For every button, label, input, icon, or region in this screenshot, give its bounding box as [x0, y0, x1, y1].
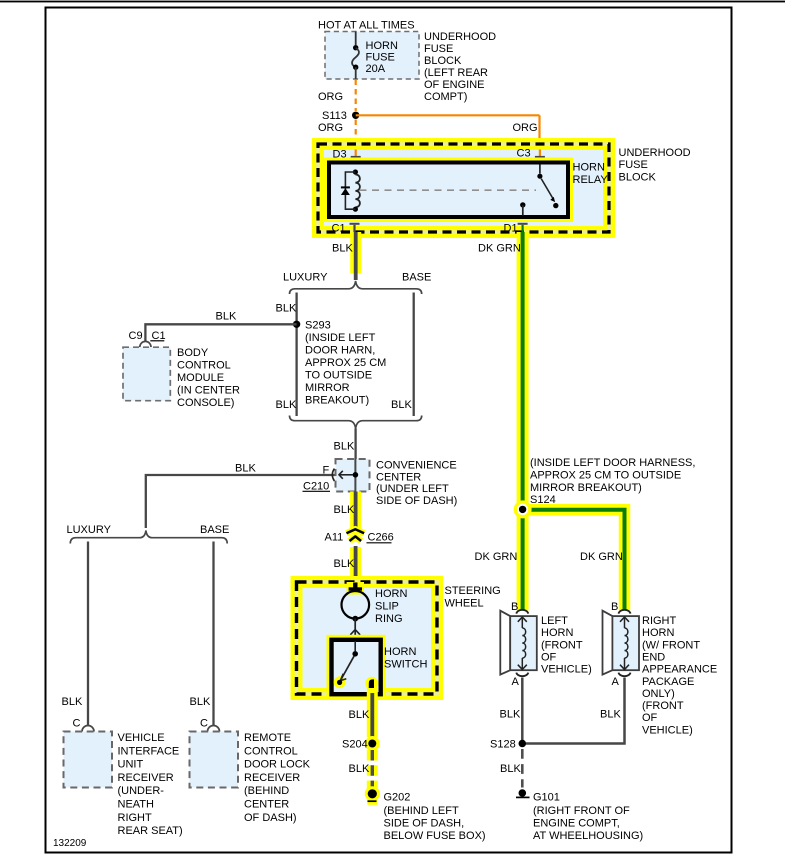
label VEHICLE INTERFACE UNIT RECEIVER (UNDERNEATH RIGHT REAR SEAT)	[118, 732, 183, 837]
svg-text:CONSOLE): CONSOLE)	[177, 397, 234, 409]
wire DK GRN S124 branch right and down (yellow highlighted)	[523, 510, 625, 611]
wire ORG down to relay C3	[538, 115, 540, 139]
svg-text:ORG: ORG	[318, 91, 343, 103]
svg-text:(INSIDE LEFT DOOR HARNESS,: (INSIDE LEFT DOOR HARNESS,	[530, 457, 695, 469]
label G202 (BEHIND LEFT SIDE OF DASH, BELOW FUSE BOX)	[384, 792, 486, 842]
svg-text:A11: A11	[325, 532, 344, 544]
svg-text:(BEHIND: (BEHIND	[244, 785, 289, 797]
label CONVENIENCE CENTER (UNDER LEFT SIDE OF DASH)	[376, 460, 457, 507]
svg-text:REAR SEAT): REAR SEAT)	[118, 825, 183, 837]
left horn body	[500, 611, 537, 675]
svg-text:WHEEL: WHEEL	[445, 598, 484, 610]
connector F / C210	[303, 459, 359, 493]
svg-text:APPROX 25 CM: APPROX 25 CM	[305, 357, 386, 369]
svg-text:BLK: BLK	[334, 504, 355, 516]
svg-text:ENGINE COMPT,: ENGINE COMPT,	[533, 817, 620, 829]
svg-text:BLOCK: BLOCK	[424, 55, 462, 67]
svg-text:BELOW FUSE BOX): BELOW FUSE BOX)	[384, 830, 486, 842]
svg-text:BLK: BLK	[216, 311, 237, 323]
label HORN SWITCH	[384, 646, 427, 671]
svg-text:OF ENGINE: OF ENGINE	[424, 79, 485, 91]
label HORN SLIP RING	[375, 588, 407, 625]
svg-text:DK GRN: DK GRN	[478, 243, 521, 255]
splice S204	[342, 736, 380, 751]
underhood fuse block outline (yellow highlight + dashed)	[318, 144, 609, 232]
splice S293	[293, 321, 300, 328]
label STEERING WHEEL	[445, 585, 501, 610]
svg-text:BLK: BLK	[276, 399, 297, 411]
svg-text:HORN: HORN	[366, 40, 398, 52]
svg-text:RING: RING	[375, 613, 403, 625]
svg-text:VEHICLE): VEHICLE)	[642, 724, 693, 736]
svg-text:RIGHT: RIGHT	[642, 615, 677, 627]
svg-text:RECEIVER: RECEIVER	[118, 772, 174, 784]
svg-text:UNDERHOOD: UNDERHOOD	[424, 31, 496, 43]
connector bump vehicle interface unit	[82, 726, 94, 732]
svg-text:HORN: HORN	[384, 646, 416, 658]
steering wheel box (yellow highlight + dashed)	[297, 582, 438, 694]
wire BLK luxury branch (left vertical)	[295, 293, 297, 417]
relay clamp diode	[341, 172, 356, 209]
svg-text:END: END	[642, 652, 665, 664]
svg-text:BLK: BLK	[276, 303, 297, 315]
right horn body	[603, 611, 640, 675]
body control module box (dashed)	[123, 347, 170, 401]
brace	[70, 531, 227, 544]
svg-text:C1: C1	[332, 223, 346, 235]
svg-text:CENTER: CENTER	[244, 799, 289, 811]
svg-text:CENTER: CENTER	[376, 471, 421, 483]
svg-text:HORN: HORN	[375, 588, 407, 600]
svg-text:SLIP: SLIP	[375, 601, 399, 613]
wire BLK left horn to S128	[521, 678, 524, 744]
svg-text:(W/ FRONT: (W/ FRONT	[642, 639, 700, 651]
svg-text:ORG: ORG	[513, 122, 538, 134]
horn slip ring	[342, 582, 370, 621]
svg-text:(FRONT: (FRONT	[541, 639, 583, 651]
brace top	[290, 281, 422, 294]
svg-text:MIRROR: MIRROR	[305, 382, 350, 394]
svg-text:DK GRN: DK GRN	[475, 551, 518, 563]
horn relay box (yellow highlight + solid black)	[329, 163, 568, 218]
top hairline rule	[0, 1, 785, 3]
svg-text:(UNDER LEFT: (UNDER LEFT	[376, 483, 449, 495]
connector C9 / C1 labels	[129, 330, 166, 342]
wire ORG fuse to S113 (dashed)	[355, 80, 357, 112]
relay switch	[520, 165, 558, 216]
svg-text:B: B	[611, 601, 618, 613]
connector bump bottom	[619, 673, 631, 677]
svg-text:S113: S113	[322, 110, 347, 122]
svg-text:CONTROL: CONTROL	[177, 360, 231, 372]
relay mechanical link (dashed)	[360, 189, 537, 191]
wire BLK S293 to BCM	[145, 324, 296, 341]
connector bump top	[516, 610, 528, 614]
wire ORG S113 to C3 (horizontal)	[356, 114, 540, 116]
terminal C3	[517, 148, 545, 160]
svg-text:C9: C9	[129, 330, 143, 342]
svg-text:BLK: BLK	[190, 696, 211, 708]
svg-text:FUSE: FUSE	[366, 52, 395, 64]
svg-text:BREAKOUT): BREAKOUT)	[305, 395, 369, 407]
left horn coil with arrows	[518, 617, 527, 670]
fuse HORN FUSE 20A	[352, 32, 398, 80]
svg-text:MODULE: MODULE	[177, 372, 224, 384]
svg-text:S204: S204	[342, 739, 368, 751]
label RIGHT HORN (W/ FRONT END APPEARANCE PACKAGE ONLY) (FRONT OF VEHICLE)	[642, 615, 717, 736]
svg-text:D1: D1	[504, 223, 518, 235]
svg-text:C266: C266	[368, 532, 394, 544]
svg-text:BASE: BASE	[402, 272, 431, 284]
svg-text:BLK: BLK	[500, 709, 521, 721]
svg-text:G202: G202	[384, 792, 411, 804]
svg-text:BLK: BLK	[500, 763, 521, 775]
label S293 (INSIDE LEFT DOOR HARN...)	[305, 320, 386, 407]
svg-text:HOT AT ALL TIMES: HOT AT ALL TIMES	[318, 20, 415, 32]
label HORN RELAY	[573, 162, 609, 186]
svg-text:OF: OF	[541, 652, 557, 664]
svg-text:LUXURY: LUXURY	[67, 524, 112, 536]
svg-text:G101: G101	[533, 792, 560, 804]
svg-text:BLK: BLK	[334, 441, 355, 453]
svg-text:HORN: HORN	[573, 162, 605, 174]
svg-text:FUSE: FUSE	[424, 43, 453, 55]
right horn coil with arrows	[620, 617, 629, 670]
svg-text:MIRROR BREAKOUT): MIRROR BREAKOUT)	[530, 482, 642, 494]
connector bump at BCM	[140, 341, 151, 347]
splice S128	[490, 739, 526, 751]
label G101 (RIGHT FRONT OF ENGINE COMPT, AT WHEELHOUSING)	[533, 792, 643, 842]
svg-text:LEFT: LEFT	[541, 615, 568, 627]
svg-text:DOOR LOCK: DOOR LOCK	[244, 759, 311, 771]
splice S124	[514, 500, 532, 518]
label (INSIDE LEFT DOOR HARNESS, APPROX 25 CM TO OUTSIDE MIRROR BREAKOUT) S124	[530, 457, 695, 506]
terminal D3	[333, 149, 361, 161]
horn switch box (yellow highlight + solid)	[332, 640, 381, 694]
wire BLK right horn down to S128 line	[526, 678, 625, 744]
wire BLK horn switch to S204 (yellow highlighted)	[367, 688, 378, 740]
svg-text:ORG: ORG	[318, 122, 343, 134]
svg-text:BLK: BLK	[391, 399, 412, 411]
svg-text:CONTROL: CONTROL	[244, 745, 298, 757]
wire DK GRN S124 down to left horn (yellow highlighted)	[517, 509, 529, 610]
svg-text:SIDE OF DASH): SIDE OF DASH)	[376, 495, 457, 507]
svg-text:BLK: BLK	[349, 709, 370, 721]
wire BLK S128 to G101 (dashed)	[521, 749, 524, 788]
svg-text:BLK: BLK	[600, 709, 621, 721]
svg-text:BODY: BODY	[177, 347, 209, 359]
svg-text:DOOR HARN,: DOOR HARN,	[305, 345, 375, 357]
wire DK GRN D1 to S124 (yellow highlighted)	[517, 232, 529, 509]
svg-text:DK GRN: DK GRN	[580, 551, 623, 563]
svg-text:UNDERHOOD: UNDERHOOD	[619, 147, 691, 159]
svg-text:C: C	[73, 718, 81, 730]
svg-text:INTERFACE: INTERFACE	[118, 745, 180, 757]
svg-text:SWITCH: SWITCH	[384, 659, 427, 671]
svg-text:(INSIDE LEFT: (INSIDE LEFT	[305, 332, 376, 344]
svg-text:BLK: BLK	[332, 243, 353, 255]
svg-text:REMOTE: REMOTE	[244, 732, 291, 744]
svg-text:TO OUTSIDE: TO OUTSIDE	[305, 370, 372, 382]
svg-text:A: A	[512, 676, 520, 688]
svg-text:PACKAGE: PACKAGE	[642, 676, 694, 688]
wire BLK base branch to remote receiver	[212, 542, 214, 726]
svg-text:STEERING: STEERING	[445, 585, 501, 597]
connector bump remote receiver	[208, 726, 220, 732]
svg-text:F: F	[323, 465, 330, 477]
wire BLK S204 to G202 (dashed, yellow highlighted)	[367, 750, 378, 789]
svg-text:APPEARANCE: APPEARANCE	[642, 664, 717, 676]
connector bump bottom	[516, 673, 528, 677]
remote control door lock receiver box (dashed)	[190, 732, 239, 788]
terminal D1	[504, 223, 528, 235]
wire BLK base branch (right vertical)	[413, 293, 415, 417]
relay coil	[353, 169, 360, 211]
svg-text:132209: 132209	[53, 838, 87, 849]
underhood fuse block box (dashed)	[325, 32, 419, 80]
svg-text:HORN: HORN	[642, 627, 674, 639]
ground G202	[365, 786, 380, 805]
svg-text:UNIT: UNIT	[118, 759, 144, 771]
svg-text:S128: S128	[490, 739, 516, 751]
terminal C1	[332, 223, 360, 235]
wire BLK brace to convenience center	[354, 429, 356, 460]
svg-text:BLOCK: BLOCK	[619, 171, 657, 183]
svg-text:BLK: BLK	[349, 763, 370, 775]
wire slip ring to horn switch with chevron	[350, 619, 360, 641]
svg-text:BASE: BASE	[200, 524, 229, 536]
svg-text:(LEFT REAR: (LEFT REAR	[424, 67, 488, 79]
brace bottom	[290, 416, 422, 429]
vehicle interface unit receiver box (dashed)	[64, 732, 113, 788]
svg-text:AT WHEELHOUSING): AT WHEELHOUSING)	[533, 830, 643, 842]
svg-text:OF: OF	[642, 712, 658, 724]
svg-text:A: A	[612, 676, 620, 688]
svg-text:BLK: BLK	[334, 558, 355, 570]
ground G101	[516, 789, 530, 797]
svg-text:HORN: HORN	[541, 627, 573, 639]
svg-text:S293: S293	[305, 320, 331, 332]
svg-text:FUSE: FUSE	[619, 159, 648, 171]
svg-text:VEHICLE): VEHICLE)	[541, 664, 592, 676]
connector bump top	[619, 610, 631, 614]
wire BLK conv center to C266 (yellow highlighted)	[350, 492, 361, 533]
label BODY CONTROL MODULE (IN CENTER CONSOLE)	[177, 347, 240, 409]
label UNDERHOOD FUSE BLOCK (right of relay)	[619, 147, 691, 183]
wire BLK C1 (yellow highlighted)	[350, 232, 361, 280]
svg-text:RELAY: RELAY	[573, 174, 609, 186]
label REMOTE CONTROL DOOR LOCK RECEIVER (BEHIND CENTER OF DASH)	[244, 732, 311, 824]
connector A11 / C266	[325, 529, 394, 543]
svg-text:VEHICLE: VEHICLE	[118, 732, 165, 744]
svg-text:ONLY): ONLY)	[642, 688, 675, 700]
svg-text:NEATH: NEATH	[118, 799, 155, 811]
svg-text:COMPT): COMPT)	[424, 91, 467, 103]
svg-text:(IN CENTER: (IN CENTER	[177, 385, 240, 397]
svg-text:SIDE OF DASH,: SIDE OF DASH,	[384, 817, 465, 829]
label UNDERHOOD FUSE BLOCK (LEFT REAR OF ENGINE COMPT)	[424, 31, 496, 103]
svg-text:(FRONT: (FRONT	[642, 700, 684, 712]
svg-text:BLK: BLK	[62, 696, 83, 708]
svg-text:CONVENIENCE: CONVENIENCE	[376, 460, 457, 472]
wire ORG S113 down to relay D3 (dashed)	[355, 120, 357, 140]
wire BLK horizontal into convenience center	[146, 475, 344, 528]
svg-text:C: C	[200, 718, 208, 730]
svg-text:APPROX 25 CM TO OUTSIDE: APPROX 25 CM TO OUTSIDE	[530, 470, 681, 482]
svg-text:LUXURY: LUXURY	[283, 272, 328, 284]
wire BLK luxury branch to vehicle interface unit	[87, 542, 89, 726]
svg-text:RECEIVER: RECEIVER	[244, 772, 300, 784]
svg-text:(UNDER-: (UNDER-	[118, 785, 165, 797]
svg-text:RIGHT: RIGHT	[118, 812, 153, 824]
svg-text:BLK: BLK	[235, 463, 256, 475]
label LEFT HORN (FRONT OF VEHICLE)	[541, 615, 592, 676]
horn switch contacts	[334, 641, 379, 692]
svg-text:20A: 20A	[366, 63, 386, 75]
svg-text:(RIGHT FRONT OF: (RIGHT FRONT OF	[533, 805, 630, 817]
svg-text:OF DASH): OF DASH)	[244, 812, 297, 824]
svg-text:(BEHIND LEFT: (BEHIND LEFT	[384, 805, 459, 817]
wire BLK C266 to steering wheel (yellow highlighted)	[350, 546, 361, 594]
convenience center box (dashed)	[336, 459, 370, 492]
